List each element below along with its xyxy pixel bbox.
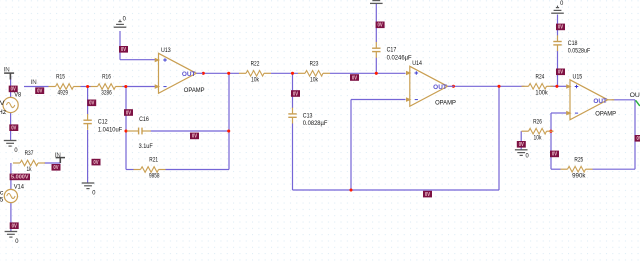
wire bottom feedback horizontal (293, 189, 500, 191)
svg-text:C17: C17 (387, 47, 397, 54)
wire feedback vertical x229 lower (228, 131, 230, 170)
wire ground to U13 noninverting input (120, 59, 156, 61)
svg-text:OUT: OUT (182, 71, 196, 78)
svg-text:0V: 0V (519, 142, 525, 148)
wire IN net main horizontal left (24, 86, 49, 88)
svg-text:0.0246µF: 0.0246µF (387, 54, 412, 61)
capacitor C13 (288, 108, 327, 127)
node voltage 0V at N1 branch (124, 109, 133, 116)
wire U14 output to junction x499 (453, 85, 524, 87)
svg-text:0V: 0V (126, 110, 132, 116)
port OUT (right edge) (630, 92, 640, 106)
svg-text:IN: IN (4, 67, 11, 74)
wire C17 to junction (375, 58, 377, 74)
junction R24 and C18 (555, 85, 558, 88)
resistor R25 (561, 156, 593, 179)
resistor R16 (91, 74, 123, 97)
wire R25 row right (593, 168, 636, 170)
node voltage 0V at V8 bottom (9, 124, 18, 131)
junction U14 out row and x499 (497, 85, 500, 88)
svg-text:R37: R37 (25, 150, 34, 157)
node voltage 0V on R23 output row (350, 74, 359, 81)
op-amp U15 (566, 74, 616, 120)
junction U14 output pin (452, 85, 455, 88)
svg-text:10k: 10k (310, 77, 318, 84)
ground below C12 (82, 183, 96, 196)
junction R23 row and C17 (375, 72, 378, 75)
svg-text:R15: R15 (56, 74, 65, 81)
wire R16 to U13 inverting input (123, 86, 157, 88)
wire R21 row left (126, 169, 134, 171)
node voltage 0V on C16 row (190, 133, 199, 140)
wire U13 noninverting ground vertical (119, 31, 121, 60)
wire C12 branch lower to ground (87, 130, 89, 183)
svg-text:C16: C16 (139, 116, 149, 123)
svg-text:10k: 10k (534, 134, 542, 141)
svg-text:0V: 0V (121, 47, 127, 53)
node voltage 0V at R37 IN port (52, 164, 61, 171)
svg-text:0: 0 (15, 238, 19, 245)
svg-text:0V: 0V (293, 91, 299, 97)
svg-text:C18: C18 (568, 40, 578, 47)
node voltage 0V on bottom feedback row (423, 191, 432, 198)
svg-text:0V: 0V (37, 89, 43, 95)
wire R23 to C17 junction (330, 72, 376, 74)
resistor R22 (239, 60, 271, 83)
svg-text:0V: 0V (378, 23, 384, 29)
wire x499 vertical to bottom (498, 86, 500, 190)
resistor R24 (522, 73, 554, 96)
wire IN net top port to V8 (10, 76, 12, 98)
svg-text:U15: U15 (573, 74, 583, 81)
svg-text:0: 0 (526, 153, 530, 160)
ground below V8 (4, 141, 18, 154)
svg-text:C13: C13 (303, 112, 313, 119)
ground below V14 (5, 232, 19, 245)
svg-text:0V: 0V (192, 134, 198, 140)
junction R26 and U15 inverting branch (549, 130, 552, 133)
svg-text:3.1uF: 3.1uF (139, 143, 153, 150)
wire feedback vertical x229 upper (228, 73, 230, 131)
wire node N1 vertical x126 lower (125, 131, 127, 170)
junction feedback x229 and C16 row (227, 129, 230, 132)
wire R37 left corner vertical (10, 163, 12, 190)
svg-text:0V: 0V (93, 160, 99, 166)
wire to U14 inverting input (351, 99, 406, 101)
capacitor C18 (553, 35, 590, 54)
svg-text:OPAMP: OPAMP (435, 99, 456, 106)
op-amp U14 (406, 60, 456, 106)
wire U15 output to OUT corner (612, 99, 635, 101)
svg-text:0: 0 (123, 16, 127, 23)
svg-text:0V: 0V (11, 87, 17, 93)
node voltage 0V on IN wire (35, 87, 44, 94)
wire C17 ground stub (375, 4, 377, 42)
node voltage 5.000V at V14 top (10, 174, 30, 181)
wire U13 output to junction (203, 72, 239, 74)
junction R15-R16-C12 (86, 85, 89, 88)
wire U14 inverting branch vertical x351 (350, 100, 352, 191)
junction N1-C16 row (124, 129, 127, 132)
wire U15 inverting input horizontal (551, 112, 567, 114)
svg-text:R26: R26 (533, 118, 542, 125)
svg-text:0.0528uF: 0.0528uF (568, 48, 590, 55)
svg-text:0V: 0V (558, 25, 564, 31)
svg-text:R25: R25 (574, 156, 583, 163)
svg-text:U14: U14 (412, 60, 422, 67)
voltage source V14 (4, 189, 17, 202)
node voltage 0V at R26 ground (517, 141, 526, 148)
node voltage 0V at C18 bottom (556, 69, 565, 76)
resistor R15 (49, 74, 81, 97)
svg-text:0: 0 (92, 189, 96, 196)
svg-text:0: 0 (560, 0, 564, 7)
wire V14 bottom to ground (10, 202, 12, 231)
svg-text:OPAMP: OPAMP (184, 87, 205, 94)
svg-text:0.0828µF: 0.0828µF (303, 120, 328, 127)
svg-text:OUT: OUT (593, 98, 607, 105)
op-amp U13 (155, 47, 205, 94)
svg-text:R16: R16 (102, 74, 111, 81)
wire C17 junction to U14 noninverting input (376, 72, 405, 74)
capacitor C16 (127, 116, 153, 150)
capacitor C12 (83, 114, 122, 133)
node voltage 0V at U15 inverting branch (550, 151, 559, 158)
node voltage 0V at C12 bottom (92, 159, 101, 166)
wire C16 row right of cap (151, 130, 230, 132)
svg-text:0V: 0V (0, 100, 5, 107)
svg-text:R24: R24 (536, 73, 545, 80)
junction bottom row and x351 (349, 188, 352, 191)
wire V8 bottom to ground (10, 113, 12, 140)
junction output row and feedback x229 (227, 72, 230, 75)
svg-text:0V: 0V (637, 136, 640, 142)
svg-text:100k: 100k (535, 90, 548, 97)
wire R25 row left (551, 168, 561, 170)
svg-text:U13: U13 (161, 47, 171, 54)
wire C18 lower to junction (557, 51, 559, 87)
svg-text:0Hz: 0Hz (0, 109, 7, 116)
svg-text:0V: 0V (12, 224, 18, 230)
wire node N1 vertical x126 upper (125, 87, 127, 132)
wire U15 inverting branch vertical x551 (550, 113, 552, 169)
node voltage 0V at V14 bottom (10, 222, 19, 229)
resistor R23 (298, 60, 330, 83)
svg-text:5.000V: 5.000V (11, 175, 29, 181)
svg-text:990k: 990k (572, 172, 586, 179)
svg-text:OUT: OUT (433, 84, 447, 91)
wire R26 ground stub (520, 131, 522, 149)
svg-text:0V: 0V (425, 192, 431, 198)
resistor R21 (134, 157, 166, 180)
svg-text:0V: 0V (558, 70, 564, 76)
svg-text:0V: 0V (11, 126, 17, 132)
svg-text:3286: 3286 (101, 90, 112, 97)
wire OUT vertical x635 (634, 100, 636, 169)
node voltage 0V at C17 top (376, 22, 385, 29)
wire between R15 and R16 (81, 86, 91, 88)
svg-text:9858: 9858 (149, 173, 160, 180)
voltage source V8 (3, 97, 18, 112)
resistor R26 (522, 118, 554, 141)
ground above U13 noninverting input (114, 16, 127, 28)
wire C18 ground stub (557, 15, 559, 36)
wire junction to R22 (271, 72, 298, 74)
svg-text:10k: 10k (251, 77, 259, 84)
svg-text:OPAMP: OPAMP (595, 111, 616, 118)
wire C12 branch upper (87, 87, 89, 115)
svg-text:IN: IN (55, 152, 62, 159)
node voltage 0V at OUT vertical (clipped) (635, 135, 640, 142)
port IN (at R37) (55, 152, 65, 163)
svg-text:R22: R22 (251, 60, 260, 67)
node voltage 0V at C13 top (291, 90, 300, 97)
ground at R26 (515, 150, 529, 160)
svg-text:0V: 0V (552, 152, 558, 158)
node voltage 0V at C12 top (87, 100, 96, 107)
junction R22-R23-C13 (291, 72, 294, 75)
svg-text:4929: 4929 (58, 90, 69, 97)
port IN (top left) (4, 67, 15, 80)
svg-text:0V: 0V (53, 165, 59, 171)
wire C13 branch lower (292, 124, 294, 191)
wire R37 to IN port (44, 162, 60, 164)
wire R24 to U15 noninverting input (551, 85, 567, 87)
svg-text:1k: 1k (27, 166, 32, 173)
wire R21 row right (166, 169, 230, 171)
svg-text:V14: V14 (14, 184, 24, 191)
node voltage 0V at V8 top (9, 86, 18, 93)
svg-text:C12: C12 (98, 119, 108, 126)
node voltage 0V at U13 noninverting (119, 46, 128, 53)
wire C13 branch upper (292, 73, 294, 108)
svg-text:0V: 0V (352, 75, 358, 81)
node voltage 0V at C18 top (556, 24, 565, 31)
svg-text:5: 5 (0, 196, 4, 203)
junction U13 output pin (202, 72, 205, 75)
capacitor C17 (372, 42, 412, 61)
svg-text:OUT: OUT (630, 92, 640, 99)
ground above C17 (clipped) (370, 0, 383, 3)
svg-text:1.0410uF: 1.0410uF (98, 126, 122, 133)
svg-text:IN: IN (31, 79, 38, 86)
svg-text:0: 0 (14, 147, 18, 154)
svg-text:0V: 0V (89, 101, 95, 107)
ground above C18 (551, 0, 564, 13)
junction R16-U13 input-N1 (124, 85, 127, 88)
svg-text:R21: R21 (149, 157, 158, 164)
svg-text:R23: R23 (310, 60, 319, 67)
resistor R37 (13, 150, 45, 173)
